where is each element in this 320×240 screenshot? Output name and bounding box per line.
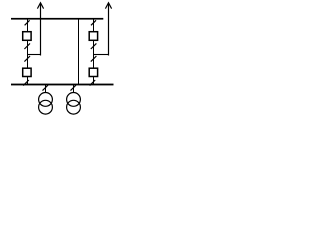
wire feeder A vertical (27, 19, 29, 85)
disconnect switch B3 (91, 56, 97, 62)
busbar top (11, 18, 103, 20)
disconnect switch A3 (24, 56, 30, 62)
circuit breaker B1 (89, 32, 97, 41)
transformer T1 (39, 93, 53, 115)
incoming feeder arrow L (left source) (37, 3, 43, 56)
wire jog left incomer to feeder A (27, 54, 41, 56)
wire feeder B vertical (93, 19, 95, 85)
disconnect switch T2 (71, 85, 77, 91)
circuit breaker A2 (23, 68, 31, 76)
busbar bottom (11, 84, 114, 86)
disconnect switch B2 (91, 43, 97, 49)
circuit breaker B2 (89, 68, 97, 76)
disconnect switch B1 (91, 20, 96, 25)
disconnect switch A2 (24, 43, 30, 49)
disconnect switch B4 (90, 80, 96, 86)
wire jog right incomer to feeder B (93, 54, 109, 56)
incoming feeder arrow R (right source) (105, 3, 111, 56)
disconnect switch A1 (25, 20, 30, 25)
wire transformer T2 stub (73, 85, 75, 93)
circuit breaker A1 (23, 32, 31, 41)
wire transformer T1 stub (45, 85, 47, 93)
wire bus tie vertical (78, 19, 80, 85)
disconnect switch T1 (43, 85, 49, 91)
disconnect switch A4 (23, 80, 29, 86)
transformer T2 (67, 93, 81, 115)
